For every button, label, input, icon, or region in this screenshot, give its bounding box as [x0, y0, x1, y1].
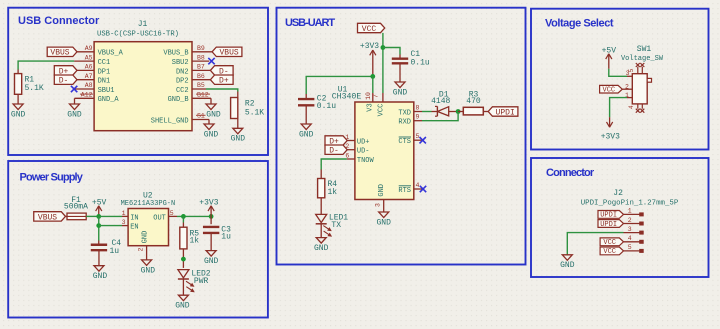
label D+ (USB-UART) — [325, 136, 347, 145]
svg-text:S1: S1 — [197, 113, 205, 120]
pin 4 of SW1 (bottom, no connect) — [637, 104, 639, 109]
ground below C4 — [94, 266, 104, 272]
no-connect X on RTS — [420, 186, 426, 192]
power +3V3 (USB-UART) — [372, 50, 374, 76]
fuse F1 500mA — [66, 215, 68, 217]
section box: Connector — [531, 158, 709, 277]
junction +3V3/V3 — [370, 74, 375, 79]
label D- (USB-UART) — [325, 145, 347, 154]
svg-text:VBUS: VBUS — [219, 49, 238, 58]
svg-text:A5: A5 — [85, 54, 93, 61]
label VBUS (power supply) — [34, 212, 66, 221]
label VCC (voltage select) — [600, 85, 623, 93]
label UPDI (USB-UART) — [488, 107, 518, 116]
pin A6 DP1 of J1 — [77, 69, 95, 71]
pin B6 DP2 of J1 — [192, 79, 210, 81]
svg-text:2: 2 — [138, 248, 145, 252]
svg-text:DP2: DP2 — [176, 78, 189, 86]
svg-text:GND: GND — [206, 110, 221, 119]
wire EN branch to U2 EN — [99, 225, 122, 227]
ground below R1 — [13, 104, 23, 110]
svg-text:SHELL_GND: SHELL_GND — [151, 117, 189, 125]
svg-text:+3V3: +3V3 — [360, 42, 379, 51]
svg-text:Voltage_SW: Voltage_SW — [621, 55, 664, 63]
svg-text:GND: GND — [393, 88, 408, 97]
section box: Voltage Select — [531, 9, 709, 150]
svg-text:UD-: UD- — [357, 148, 370, 156]
wire OUT to R5 — [182, 216, 184, 222]
ground at GND_A — [74, 98, 76, 104]
resistor R5 — [180, 227, 187, 249]
pin 2 GND of U2 — [146, 246, 148, 260]
pin 5 of SW1 (top, no connect) — [637, 67, 639, 74]
pin B7 DN2 of J1 — [192, 69, 210, 71]
svg-text:GND: GND — [378, 184, 386, 197]
svg-text:3: 3 — [122, 219, 126, 226]
svg-text:USB Connector: USB Connector — [18, 15, 100, 27]
svg-text:2: 2 — [628, 217, 632, 224]
svg-text:7: 7 — [373, 94, 380, 98]
svg-text:1k: 1k — [190, 237, 200, 246]
svg-text:8: 8 — [416, 104, 420, 111]
pin A8 SBU1 of J1 — [74, 88, 94, 90]
svg-text:TNOW: TNOW — [357, 157, 375, 165]
label UPDI (J2 pin 2) — [598, 220, 624, 228]
svg-text:VBUS: VBUS — [38, 213, 57, 222]
svg-text:0.1u: 0.1u — [317, 102, 336, 111]
wire VCC to U1 pin7 — [382, 33, 384, 93]
section box: USB Connector — [8, 8, 268, 155]
ground below C1 — [395, 82, 405, 88]
capacitor C4 — [91, 244, 107, 246]
svg-text:VCC: VCC — [603, 239, 616, 247]
wire +5V to SW1 pin3 — [609, 69, 627, 77]
label VCC (USB-UART) — [358, 23, 385, 32]
LED D1 LED1 TX — [316, 214, 327, 222]
pin 2 of J2 — [624, 223, 640, 225]
svg-text:B7: B7 — [197, 64, 205, 71]
wire LED2 to ground — [182, 279, 184, 295]
no-connect X on SBU1 — [71, 86, 77, 92]
wire R2 to ground — [237, 119, 239, 129]
svg-text:4: 4 — [628, 235, 632, 242]
wire CC2 to R2 — [206, 89, 238, 92]
svg-text:J1: J1 — [138, 20, 148, 29]
pin 10 V3 of U1 — [372, 93, 374, 102]
no-connect X on SW1 top pins — [636, 63, 640, 67]
svg-text:V3: V3 — [367, 103, 375, 111]
svg-text:5: 5 — [628, 244, 632, 251]
svg-text:GND: GND — [67, 110, 82, 119]
wire RXD loop — [422, 112, 458, 121]
pin 1 of J2 — [624, 213, 640, 215]
label VBUS (left) — [47, 47, 77, 56]
pin 7 VCC of U1 — [382, 93, 384, 102]
wire C2 to ground — [305, 105, 307, 124]
svg-text:VBUS: VBUS — [50, 49, 69, 58]
svg-text:B12: B12 — [197, 92, 209, 99]
svg-text:IN: IN — [130, 214, 138, 222]
pin 2 of SW1 — [622, 88, 632, 90]
wire +3V3 node to U1 pin10 — [372, 76, 374, 93]
svg-text:GND: GND — [299, 130, 314, 139]
pin B12 GND_B of J1 — [192, 97, 211, 99]
svg-text:A7: A7 — [85, 73, 93, 80]
svg-text:GND: GND — [376, 218, 391, 227]
svg-text:GND_B: GND_B — [168, 96, 189, 104]
svg-text:USB-UART: USB-UART — [285, 17, 335, 29]
no-connect X on SBU2 — [208, 58, 214, 64]
power +5V — [98, 206, 100, 217]
svg-text:A6: A6 — [85, 64, 93, 71]
pin 2 UD- of U1 — [347, 149, 355, 151]
pin 5 OUT of U2 — [169, 215, 178, 217]
svg-text:Power Supply: Power Supply — [20, 172, 84, 184]
resistor R1 — [15, 74, 22, 95]
svg-text:OUT: OUT — [153, 214, 166, 222]
svg-text:VCC: VCC — [362, 25, 377, 34]
svg-text:1: 1 — [628, 208, 632, 215]
svg-text:2: 2 — [625, 84, 629, 91]
label UPDI (J2 pin 1) — [598, 211, 624, 219]
power +5V (voltage select) — [608, 54, 610, 69]
svg-text:GND: GND — [142, 231, 150, 244]
svg-text:5.1K: 5.1K — [245, 108, 264, 117]
resistor R3 470 — [458, 111, 463, 113]
svg-text:CC2: CC2 — [176, 87, 189, 95]
pin 3 of SW1 — [627, 75, 632, 77]
svg-text:B6: B6 — [197, 73, 205, 80]
ground below R2 — [233, 128, 243, 134]
wire R1 to ground — [17, 94, 19, 104]
resistor R2 — [231, 98, 238, 119]
svg-text:CH340E: CH340E — [332, 92, 362, 101]
pin A7 DN1 of J1 — [77, 79, 95, 81]
svg-text:GND: GND — [314, 244, 329, 253]
power +3V3 (voltage select) — [609, 117, 611, 127]
ground at SHELL_GND — [208, 120, 210, 125]
LED D2 LED2 PWR — [178, 270, 189, 278]
pin B8 SBU2 of J1 — [192, 60, 209, 62]
label VBUS (right) — [212, 47, 242, 56]
wire C1 to ground — [399, 63, 401, 82]
svg-text:TX: TX — [331, 221, 341, 230]
svg-text:PWR: PWR — [194, 277, 209, 286]
svg-text:9: 9 — [416, 114, 420, 121]
wire C4 to ground — [98, 250, 100, 265]
no-connect X on CTS — [420, 137, 426, 143]
svg-text:GND: GND — [141, 266, 156, 275]
svg-text:GND_A: GND_A — [98, 96, 120, 104]
ground below C3 — [206, 251, 216, 257]
svg-text:SW1: SW1 — [637, 45, 652, 54]
wire J2 pin3 to ground — [567, 233, 623, 255]
section box: USB-UART — [277, 8, 526, 265]
svg-text:DN1: DN1 — [98, 78, 111, 86]
svg-text:0.1u: 0.1u — [411, 58, 430, 67]
svg-text:+3V3: +3V3 — [601, 132, 620, 141]
label VCC (J2 pin 5) — [600, 247, 623, 255]
pin 3 GND of U1 — [383, 200, 385, 213]
pin 4 RTS of U1 — [414, 188, 422, 190]
pin 4 of J2 — [624, 241, 640, 243]
svg-text:GND: GND — [175, 302, 190, 311]
svg-text:GND: GND — [560, 261, 575, 270]
svg-text:B9: B9 — [197, 45, 205, 52]
svg-text:10: 10 — [365, 92, 372, 100]
label D+ (left) — [54, 66, 77, 75]
junction +5V/IN — [96, 214, 101, 219]
svg-text:5.1K: 5.1K — [25, 84, 44, 93]
svg-text:ME6211A33PG-N: ME6211A33PG-N — [121, 200, 176, 208]
svg-text:UD+: UD+ — [357, 138, 370, 146]
svg-text:SBU1: SBU1 — [98, 87, 115, 95]
svg-text:3: 3 — [375, 203, 382, 207]
ground below J2 — [562, 255, 572, 260]
svg-text:4148: 4148 — [431, 97, 450, 106]
svg-text:500mA: 500mA — [64, 203, 88, 212]
svg-text:UPDI: UPDI — [600, 221, 617, 229]
pin A5 CC1 of J1 — [74, 60, 94, 62]
svg-text:4: 4 — [416, 182, 420, 189]
svg-text:UPDI_PogoPin_1.27mm_5P: UPDI_PogoPin_1.27mm_5P — [581, 199, 679, 207]
junction D1/R3/RXD — [456, 109, 461, 114]
junction EN branch — [96, 223, 101, 228]
resistor R4 1k — [318, 179, 325, 198]
capacitor C1 — [392, 58, 408, 60]
pin S1 SHELL_GND of J1 — [192, 119, 209, 121]
capacitor C2 — [298, 98, 314, 100]
wire +3V3 node to C3 — [210, 216, 212, 224]
svg-text:3: 3 — [628, 226, 632, 233]
svg-text:GND: GND — [204, 130, 219, 139]
svg-text:4: 4 — [628, 105, 635, 109]
svg-text:U2: U2 — [143, 192, 153, 201]
label D- (right) — [210, 66, 233, 75]
power +3V3 (power supply) — [210, 206, 212, 217]
label D+ (right) — [210, 75, 233, 84]
capacitor C3 — [203, 226, 219, 228]
junction R5/LED2 — [181, 257, 186, 262]
svg-text:UPDI: UPDI — [600, 212, 617, 220]
wire U2 OUT rail — [177, 215, 211, 217]
svg-text:USB-C(CSP-USC16-TR): USB-C(CSP-USC16-TR) — [97, 30, 179, 38]
svg-text:5: 5 — [170, 210, 174, 217]
svg-text:UPDI: UPDI — [496, 108, 515, 117]
pin B5 CC2 of J1 — [192, 88, 206, 90]
svg-text:1u: 1u — [221, 233, 231, 242]
pin 6 TNOW of U1 — [347, 158, 355, 160]
svg-text:5: 5 — [416, 133, 420, 140]
wire TXD to D1 — [422, 111, 432, 113]
label VCC (J2 pin 4) — [600, 238, 623, 246]
wire TNOW to R4 — [321, 159, 347, 170]
svg-text:EN: EN — [130, 224, 138, 232]
USB connector J1 — [94, 42, 192, 131]
svg-text:CC1: CC1 — [98, 59, 111, 67]
svg-text:R2: R2 — [245, 99, 255, 108]
pin B9 VBUS_B of J1 — [192, 51, 212, 53]
svg-text:B5: B5 — [197, 82, 205, 89]
wire VCC node to C1 — [383, 48, 400, 55]
no-connect X on SW1 bottom pins — [636, 109, 640, 113]
wire CC1 to R1 — [18, 61, 74, 69]
diode D1 4148 — [432, 111, 438, 113]
wire LED1 to ground — [320, 224, 322, 238]
svg-text:GND: GND — [93, 272, 108, 281]
svg-text:GND: GND — [204, 257, 219, 266]
svg-text:3: 3 — [626, 70, 630, 77]
svg-text:D-: D- — [329, 147, 339, 156]
svg-text:VBUS_B: VBUS_B — [163, 50, 188, 58]
svg-text:GND: GND — [11, 110, 26, 119]
svg-text:CTS: CTS — [398, 138, 411, 146]
svg-text:RXD: RXD — [398, 119, 411, 127]
wire +5V node down to EN and C4 — [98, 216, 100, 240]
wire +5V node to U2 IN — [99, 215, 122, 217]
pin 9 RXD of U1 — [414, 120, 422, 122]
svg-text:+3V3: +3V3 — [199, 199, 218, 208]
svg-text:1: 1 — [122, 210, 126, 217]
svg-text:A8: A8 — [85, 82, 93, 89]
pin A12 GND_A of J1 — [75, 97, 95, 99]
svg-text:+5V: +5V — [602, 46, 617, 55]
pin 3 EN of U2 — [122, 225, 128, 227]
pin 1 IN of U2 — [122, 215, 128, 217]
svg-text:DP1: DP1 — [98, 68, 111, 76]
svg-text:A9: A9 — [85, 45, 93, 52]
wire SW1 pin1 to +3V3 — [610, 98, 627, 118]
svg-text:B8: B8 — [197, 54, 205, 61]
ground at GND_B — [210, 98, 212, 104]
ground below U2 — [142, 260, 152, 266]
label D- (left) — [54, 75, 77, 84]
svg-text:RTS: RTS — [398, 187, 411, 195]
svg-text:VCC: VCC — [377, 104, 385, 117]
pin 5 of J2 — [624, 250, 640, 252]
ground below LED2 — [178, 295, 188, 301]
ground below U1 — [379, 212, 389, 218]
wire fuse to +5V node — [86, 215, 99, 217]
junction +3V3/C3 — [209, 214, 214, 219]
pin 3 of J2 — [624, 232, 640, 234]
svg-text:A12: A12 — [81, 92, 93, 99]
svg-text:J2: J2 — [613, 189, 623, 198]
svg-text:DN2: DN2 — [176, 68, 189, 76]
junction R5 branch — [181, 214, 186, 219]
svg-text:1u: 1u — [110, 247, 120, 256]
svg-text:Voltage Select: Voltage Select — [545, 18, 614, 30]
svg-text:1k: 1k — [328, 188, 338, 197]
pin 1 of SW1 — [627, 97, 632, 99]
section box: Power Supply — [8, 161, 268, 318]
USB-UART IC U1 CH340E — [355, 102, 414, 200]
svg-text:Connector: Connector — [546, 167, 595, 179]
svg-text:VBUS_A: VBUS_A — [98, 50, 124, 58]
svg-text:TXD: TXD — [398, 109, 411, 117]
wire C3 to ground — [210, 233, 212, 251]
svg-text:VCC: VCC — [603, 87, 616, 95]
ground below C2 — [301, 124, 311, 130]
svg-text:GND: GND — [231, 135, 246, 144]
wire R4 to LED1 — [320, 198, 322, 215]
pin 5 CTS of U1 — [414, 139, 422, 141]
pin 8 TXD of U1 — [414, 111, 422, 113]
svg-text:VCC: VCC — [603, 248, 616, 256]
pin 1 UD+ of U1 — [347, 140, 355, 142]
svg-text:D-: D- — [59, 77, 69, 86]
junction VCC/C1 — [381, 45, 386, 50]
svg-text:+5V: +5V — [92, 199, 107, 208]
regulator U2 ME6211A33PG-N — [128, 209, 168, 246]
svg-text:470: 470 — [466, 97, 481, 106]
wire R5 to LED2 — [182, 249, 184, 268]
ground below LED1 — [316, 238, 326, 244]
pin A9 VBUS_A of J1 — [77, 51, 94, 53]
svg-text:D+: D+ — [219, 77, 229, 86]
wire C2 to +3V3 node — [306, 76, 373, 94]
svg-text:SBU2: SBU2 — [172, 59, 189, 67]
